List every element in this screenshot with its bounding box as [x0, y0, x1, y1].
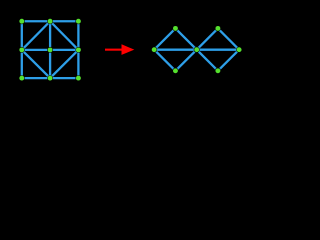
- node halo grid center: [47, 47, 53, 53]
- node grid center: [48, 47, 53, 52]
- wire diagonal bottom-mid to left-mid: [22, 50, 50, 78]
- wire diamond1 left to top: [154, 28, 175, 49]
- wire grid left edge: [21, 21, 23, 78]
- node grid bottom-right: [76, 76, 81, 81]
- node halo diamond1 top: [172, 25, 178, 31]
- wire diagonal top-mid to right-mid: [50, 21, 78, 50]
- wire diamond2 center to top: [197, 28, 218, 49]
- wire diamond1 center to bottom: [175, 50, 196, 71]
- node halo grid top-left: [19, 18, 25, 24]
- node halo diamond2 bottom: [215, 68, 221, 74]
- wire diamond2 right to bottom: [218, 50, 239, 71]
- node diamond2 bottom: [215, 68, 220, 73]
- node grid mid-right: [76, 47, 81, 52]
- wire diamond2 bottom to center: [197, 50, 218, 71]
- node halo shared center: [194, 47, 200, 53]
- node diamond1 bottom: [173, 68, 178, 73]
- node halo grid bottom-mid: [47, 75, 53, 81]
- node halo diamond1 bottom: [172, 68, 178, 74]
- node halo grid mid-left: [19, 47, 25, 53]
- wire grid bottom edge: [22, 77, 79, 79]
- wire grid top edge: [22, 20, 79, 22]
- node grid mid-left: [19, 47, 24, 52]
- node halo diamond2 right: [236, 47, 242, 53]
- node diamond1 top: [173, 26, 178, 31]
- node halo diamond2 top: [215, 25, 221, 31]
- node diamond2 right: [237, 47, 242, 52]
- wire diamond2 horizontal: [197, 49, 239, 51]
- wire grid middle horizontal: [22, 49, 79, 51]
- wire diamond1 bottom to left: [154, 50, 175, 71]
- node halo grid top-mid: [47, 18, 53, 24]
- wire diagonal left-mid to top-mid: [22, 21, 50, 50]
- node grid top-left: [19, 19, 24, 24]
- wire diagonal right-mid to bottom-mid: [50, 50, 78, 78]
- node diamond1 left: [152, 47, 157, 52]
- node grid bottom-left: [19, 76, 24, 81]
- node shared center: [194, 47, 199, 52]
- node grid top-right: [76, 19, 81, 24]
- node halo grid top-right: [75, 18, 81, 24]
- node halo diamond1 left: [151, 47, 157, 53]
- node halo grid bottom-right: [75, 75, 81, 81]
- wire diamond1 horizontal: [154, 49, 197, 51]
- wire grid right edge: [77, 21, 79, 78]
- node grid top-mid: [48, 19, 53, 24]
- node halo grid mid-right: [75, 47, 81, 53]
- node diamond2 top: [215, 26, 220, 31]
- wire grid middle vertical: [49, 21, 51, 78]
- arrow: [105, 44, 134, 55]
- node grid bottom-mid: [48, 76, 53, 81]
- node halo grid bottom-left: [19, 75, 25, 81]
- wire diamond2 top to right: [218, 28, 239, 49]
- wire diamond1 top to center: [175, 28, 196, 49]
